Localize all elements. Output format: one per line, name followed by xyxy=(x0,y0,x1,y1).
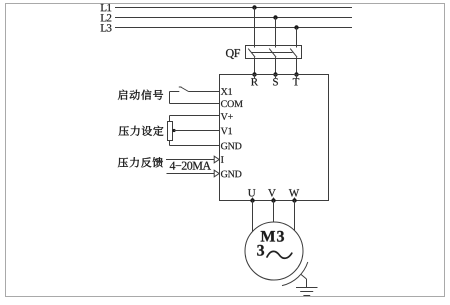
wire earth tap vertical xyxy=(306,279,308,288)
motor phase tilde xyxy=(267,251,292,258)
wire QF output T xyxy=(296,57,298,74)
breaker QF pole 2 blade xyxy=(269,49,276,58)
pin stub T xyxy=(296,75,298,79)
pin stub R xyxy=(254,75,256,79)
wire feedback current to I xyxy=(166,159,215,161)
wire feedback return to GND xyxy=(167,173,215,175)
terminal label X1 xyxy=(221,88,228,95)
wire L3 drop to QF xyxy=(296,28,298,48)
junction terminal V xyxy=(271,198,275,202)
switch S1 blade xyxy=(181,87,189,92)
inverter U1 body xyxy=(220,75,329,201)
wire W to motor xyxy=(294,201,296,231)
wire pot top lead xyxy=(169,116,171,122)
wire wiper to V1 xyxy=(174,130,220,132)
breaker QF tie bar xyxy=(251,52,293,54)
arrowhead into I xyxy=(214,156,219,163)
breaker QF pole 1 blade xyxy=(248,49,255,58)
wire blade tip to X1 xyxy=(189,91,220,93)
motor label M3 xyxy=(261,231,275,241)
ground symbol bar 2 xyxy=(300,291,313,293)
wire pot bottom lead xyxy=(169,141,171,146)
junction on L1 xyxy=(252,5,256,9)
label yali sheding (pressure set) xyxy=(119,126,129,136)
pin stub W xyxy=(294,198,296,201)
junction terminal S xyxy=(273,72,277,76)
wire U to motor xyxy=(252,201,254,232)
pin stub V xyxy=(273,198,275,201)
potentiometer RP body xyxy=(168,122,173,141)
wire L1 drop to QF xyxy=(254,8,256,48)
wire QF output S xyxy=(275,57,277,74)
junction on L2 xyxy=(273,15,277,19)
arrowhead into GND xyxy=(214,170,219,177)
terminal label U xyxy=(248,189,255,196)
motor label 3 xyxy=(257,245,264,256)
wire switch common vertical xyxy=(169,92,171,104)
wire to COM xyxy=(170,103,220,105)
breaker QF pole 3 blade xyxy=(290,49,297,58)
net L2 label xyxy=(101,14,107,21)
wire X1 fixed side xyxy=(170,91,180,93)
terminal label GND xyxy=(221,171,227,178)
terminal label W xyxy=(289,189,299,196)
junction terminal W xyxy=(292,198,296,202)
junction on L3 xyxy=(294,25,298,29)
terminal label GND xyxy=(221,143,227,150)
ground symbol bar 3 xyxy=(303,295,310,297)
wire motor frame arc xyxy=(282,262,308,286)
terminal label I xyxy=(221,156,224,163)
terminal label V1 xyxy=(221,128,228,135)
potentiometer RP wiper dot xyxy=(172,129,175,132)
terminal label V xyxy=(268,189,276,196)
wire L3 rail xyxy=(115,27,352,29)
pin stub S xyxy=(275,75,277,79)
value label 4-20MA xyxy=(170,162,176,170)
junction terminal U xyxy=(250,198,254,202)
wire earth tap diagonal xyxy=(301,274,307,279)
terminal label R xyxy=(251,78,258,85)
terminal label S xyxy=(273,78,278,85)
terminal label COM xyxy=(221,100,227,107)
wire to GND xyxy=(170,145,220,147)
ground symbol bar 1 xyxy=(296,287,318,289)
terminal label V+ xyxy=(221,113,228,120)
wire QF output R xyxy=(254,57,256,74)
junction terminal R xyxy=(252,72,256,76)
breaker QF label xyxy=(226,49,234,59)
label qidong xinhao (start signal) xyxy=(118,90,128,100)
label yali fankui (pressure feedback) xyxy=(118,158,128,168)
wire L2 drop to QF xyxy=(275,18,277,48)
motor M3 body xyxy=(245,222,303,280)
net L1 label xyxy=(101,4,107,11)
wire V to motor xyxy=(273,201,275,223)
wire V+ feed xyxy=(170,115,220,117)
wire L2 rail xyxy=(115,17,352,19)
net L3 label xyxy=(101,24,107,31)
terminal label T xyxy=(293,78,299,85)
breaker QF body xyxy=(246,46,302,59)
switch S1 blade top tick xyxy=(179,86,182,88)
junction terminal T xyxy=(294,72,298,76)
pin stub U xyxy=(252,198,254,201)
wire L1 rail xyxy=(115,7,352,9)
